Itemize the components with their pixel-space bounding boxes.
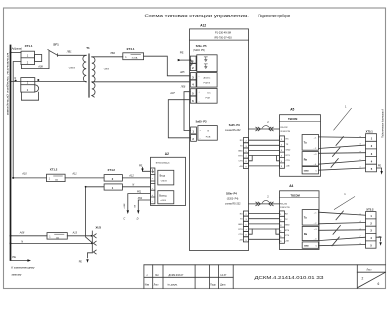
wire A2 +24V output C [123,191,151,221]
P3 box [198,126,217,141]
twisted pair marks top [331,137,343,168]
jumper P4 RTS-CTS [249,229,253,234]
A5 GND box [302,167,318,174]
svg-text:+5В: +5В [285,241,289,243]
svg-text:СТS: СТS [239,234,244,236]
P9 terminals 1-6 [243,138,248,169]
wire bus N to XU3 [10,240,94,244]
svg-text:А(фаза): А(фаза) [11,46,22,50]
wire A4.4 to XT5.2 [319,237,366,240]
wire A5.1 to XT5.1 [319,136,366,139]
A5 Rb driver box [302,152,318,166]
A2 input box [158,170,174,185]
svg-text:в: в [360,151,361,153]
svg-text:DC: DC [208,93,212,95]
P5 terminal 3 [190,73,196,80]
svg-text:схема RS-232: схема RS-232 [225,202,241,205]
svg-text:ЛВ2: ЛВ2 [109,52,115,55]
transformer T1 [68,46,110,97]
svg-text:+24В: +24В [123,203,126,209]
svg-text:~230 В: ~230 В [68,67,76,69]
svg-text:+5В: +5В [239,166,243,168]
svg-text:N: N [21,240,23,243]
svg-text:GND: GND [304,171,309,173]
svg-text:в: в [360,228,361,230]
svg-text:ТВСОМ: ТВСОМ [291,193,300,197]
svg-text:Подп.: Подп. [210,284,216,286]
svg-text:РЕ: РЕ [12,255,16,259]
svg-text:Изм: Изм [145,284,150,286]
svg-text:А12: А12 [128,175,134,178]
svg-text:А08: А08 [37,65,43,68]
P5 earth box pins 1-2 [197,55,217,72]
svg-text:Rв: Rв [304,233,308,236]
svg-text:РwВ: РwВ [206,137,211,139]
svg-text:А10: А10 [21,172,27,175]
cable 1 leader (bottom) [334,192,355,209]
svg-text:СТS: СТS [239,161,244,163]
wire P9.2 to A5 [249,144,280,146]
port P4 label [225,192,241,206]
svg-text:Схема типовая станции управлен: Схема типовая станции управления. [145,13,250,18]
wire N bus to T1 primary [10,77,87,83]
PE earth tap bottom left [10,255,35,276]
fuse KT4.1 [123,47,144,60]
wire numbers at XT5.2 [360,214,362,245]
P3 terminal 1 [191,127,197,134]
PE arrow at A2 [139,165,151,172]
wire P9.3 to A5 [249,150,280,152]
svg-text:А5: А5 [290,107,294,111]
svg-text:ТВСОМ: ТВСОМ [288,117,297,121]
connector XT1.1 lower block [21,78,39,93]
svg-text:РwЕ В: РwЕ В [204,83,211,85]
wire SF1 to T1 [57,50,86,55]
svg-text:IР5-700-07-403: IР5-700-07-403 [214,37,232,40]
wire P9.6 to A5 [249,165,280,167]
svg-text:ЛВ1: ЛВ1 [66,50,72,53]
wire A12 pin6 to P3 pin2 [168,100,190,138]
svg-text:(S203- Р4): (S203- Р4) [227,197,239,200]
svg-text:СТS: СТS [285,235,290,237]
svg-text:RТS: RТS [238,229,243,231]
wire P9.1 to A5 [249,139,280,141]
svg-text:№ докум.: № докум. [168,283,178,286]
svg-text:ХТ5.1: ХТ5.1 [366,129,374,133]
svg-text:Я МОСТВ: Я МОСТВ [280,207,290,209]
P5 terminal 2 [190,64,196,71]
P5 terminal 4 [190,80,196,87]
svg-text:GND: GND [285,224,290,226]
P5 terminal 5 [190,89,196,96]
wire A4.2 to XT5.2 [319,223,366,224]
wire bus to XT1.1 [10,52,22,54]
wire XT1.1 to SF1 [22,51,50,68]
twisted pair marks bottom [332,211,343,246]
svg-text:5а05- Р3: 5а05- Р3 [196,120,207,124]
svg-text:г: г [360,236,361,238]
cable marker 2 (bottom) [256,195,273,206]
wire A5.3 to XT5.1 [319,152,366,155]
svg-text:N: N [132,183,134,186]
svg-text:РЕ: РЕ [79,260,83,263]
wire P4.1 to A4 [249,213,280,215]
svg-text:Р02: Р02 [138,197,143,200]
svg-text:А08: А08 [19,232,25,235]
svg-text:6: 6 [378,282,380,286]
P9 pin name labels [238,140,243,168]
svg-text:=24 В: =24 В [160,200,166,202]
A2 left terminals [151,168,155,204]
terminal strip XT5.2 [366,207,377,248]
svg-text:D: D [137,216,139,220]
P5 DC out box pins 5-6 [197,88,217,103]
cable marker 2 (top) [256,120,273,131]
svg-text:14.37: 14.37 [220,274,227,277]
P5 AC/DC box pins 3-4 [197,73,217,88]
A4 Rb driver box [302,226,318,240]
socket XU3 [79,225,102,263]
svg-text:2: 2 [362,276,364,280]
input power cable bus [5,46,10,261]
svg-text:схема RS-232: схема RS-232 [225,129,241,132]
module A4 [280,184,320,249]
svg-text:А07: А07 [169,92,175,95]
wire A2 0V output D [134,197,150,220]
svg-text:ДСКМ.4.21414.010.01 ЗЗ: ДСКМ.4.21414.010.01 ЗЗ [255,275,324,280]
A5 left terminals [280,136,291,168]
connector XT4.2 [104,168,122,190]
svg-text:Я МОСТВ: Я МОСТВ [281,131,291,133]
phase tap wire down to lower feeder [13,62,21,178]
PE tap right of XT5.2 [376,236,382,246]
svg-text:СТS: СТS [286,160,291,162]
A12 header label box [190,32,249,41]
fuse XT1.2 [47,168,66,182]
svg-text:КТ4.1: КТ4.1 [127,47,135,51]
wire P4.6 to A4 [249,238,280,240]
title block row 1 [147,274,227,277]
svg-text:RS-232: RS-232 [281,127,289,129]
wire A5.4 to XT5.1 [319,160,366,164]
svg-text:Подключение датчиков А: Подключение датчиков А [381,109,384,138]
svg-text:RS-232: RS-232 [280,203,288,205]
wire A5.5 to XT5.1 [319,168,366,170]
jumper A5 RTS-CTS [277,156,280,161]
title block row 2 [145,283,226,286]
svg-text:RТS: RТS [285,230,290,232]
wire numbers at XT5.1 [360,136,362,168]
svg-text:РЕ: РЕ [180,50,184,54]
svg-text:3,15А: 3,15А [132,57,138,60]
svg-text:ХТ1.1: ХТ1.1 [25,44,33,48]
wire A5.2 to XT5.1 [319,145,366,148]
svg-text:А2: А2 [165,152,169,156]
sheet cell [362,269,380,286]
wire XT4.2 to A2 L [122,175,150,178]
A4 GND box [302,242,318,248]
svg-text:GND: GND [238,150,243,152]
PE tap right of XT5.1 [377,164,383,174]
wire P4.3 to A4 [249,223,280,225]
P5 terminal 6 [190,96,196,103]
wire P4.4 to A4 [249,228,280,230]
svg-text:зажиму: зажиму [10,273,21,277]
svg-text:N: N [14,77,16,80]
connector XT1.1 [21,44,42,64]
jumper P9 RTS-CTS [249,156,253,161]
svg-text:GND: GND [238,224,243,226]
svg-text:520к- Р5: 520к- Р5 [196,44,207,48]
svg-text:Rв: Rв [304,158,308,161]
svg-text:РЕ: РЕ [378,164,382,167]
svg-text:Вход: Вход [160,174,166,177]
A2 output box [158,191,174,204]
wire A4.3 to XT5.2 [319,229,366,232]
wire fuse to A12 pin3 [144,56,191,76]
svg-text:А11: А11 [71,172,77,175]
svg-text:~230 В: ~230 В [160,180,167,182]
switch SF1 [48,42,59,56]
P5 terminal 1 [190,56,196,63]
svg-text:ХТ5.2: ХТ5.2 [366,207,374,211]
wire XT4.2 to A2 N [122,183,150,186]
svg-text:5а05- Р9: 5а05- Р9 [229,123,240,127]
svg-text:г: г [360,159,361,161]
svg-text:Р01: Р01 [137,191,142,194]
svg-text:ХТ1.2: ХТ1.2 [50,168,58,172]
svg-text:А12: А12 [200,24,206,28]
wire A12 pin5 to P3 pin1 [169,92,190,131]
svg-text:GND: GND [286,149,291,151]
svg-text:БП520к/5А-2к: БП520к/5А-2к [156,161,170,164]
P4 pin name labels [238,214,243,242]
svg-text:С: С [123,216,125,220]
A4 left terminals [280,211,291,243]
jumper A4 RTS-CTS [276,229,280,234]
wire A4.1 to XT5.2 [319,212,366,215]
svg-text:RТS: RТS [238,156,243,158]
A5 Ta driver box [302,135,318,151]
svg-text:AC/DC: AC/DC [204,77,211,80]
cable 1 leader (top) [334,105,352,131]
svg-text:GND: GND [304,246,309,248]
svg-text:ХТ4.2: ХТ4.2 [108,168,116,172]
P4 terminals 1-6 [243,211,248,242]
svg-text:Т1: Т1 [86,46,90,50]
svg-text:А13: А13 [72,232,78,235]
wire XT4.2 pin1 to XU3 N [86,187,105,243]
svg-text:+5В: +5В [286,166,290,168]
svg-text:520к- Р4: 520к- Р4 [226,192,237,196]
wire fuse to XT4.2 [65,172,104,178]
wire loop under lower block [21,92,38,100]
svg-text:SF1: SF1 [53,42,59,46]
wire T1 center tap to A12 pin4 [92,82,191,89]
svg-text:+5В: +5В [239,239,243,241]
svg-text:ХU3: ХU3 [96,225,102,229]
wire to fuse XT1.2 [12,172,46,179]
svg-text:Подключение приборов: Подключение приборов [259,13,291,18]
power supply A2 [151,152,186,206]
svg-text:К заземляющему: К заземляющему [11,265,35,269]
controller unit A12 [190,24,249,251]
svg-text:RТS: RТS [286,155,291,157]
wire fuse to XU3 [67,232,92,237]
fuse to XU3 [47,233,67,240]
svg-text:А05: А05 [179,71,185,74]
svg-text:(S203. Р5): (S203. Р5) [193,49,205,52]
svg-text:вводный кабель питания: вводный кабель питания [5,52,9,115]
svg-text:Л06: Л06 [180,86,186,89]
wire A4.5 to XT5.2 [319,245,366,246]
port P9 label [225,123,241,132]
wire T1 sec top to fuse KT4.1 [92,52,123,57]
wire P9 shield to A5 [249,128,280,130]
wire P4 shield to A4 [249,203,280,205]
svg-text:Выход: Выход [159,194,167,197]
svg-text:РwЕ: РwЕ [206,98,211,100]
wire bus to fuse (socket line) [10,232,48,237]
power module P5 label [193,44,207,52]
title block [144,265,386,289]
terminal strip XT5.1 [366,129,377,171]
A4 Ta driver box [302,210,318,226]
wire P4.2 to A4 [249,218,280,220]
svg-text:А4: А4 [289,184,293,188]
svg-text:Дата: Дата [220,284,226,286]
module A5 [280,107,321,176]
svg-text:Р1-230-49-3М: Р1-230-49-3М [215,32,231,35]
wire P9.4 to A5 [249,155,280,157]
svg-text:ДСКМ.033-07: ДСКМ.033-07 [169,274,185,277]
svg-text:~24 В: ~24 В [103,67,109,70]
PE arrow at A12 [178,50,193,65]
P3 terminal 2 [191,134,197,141]
